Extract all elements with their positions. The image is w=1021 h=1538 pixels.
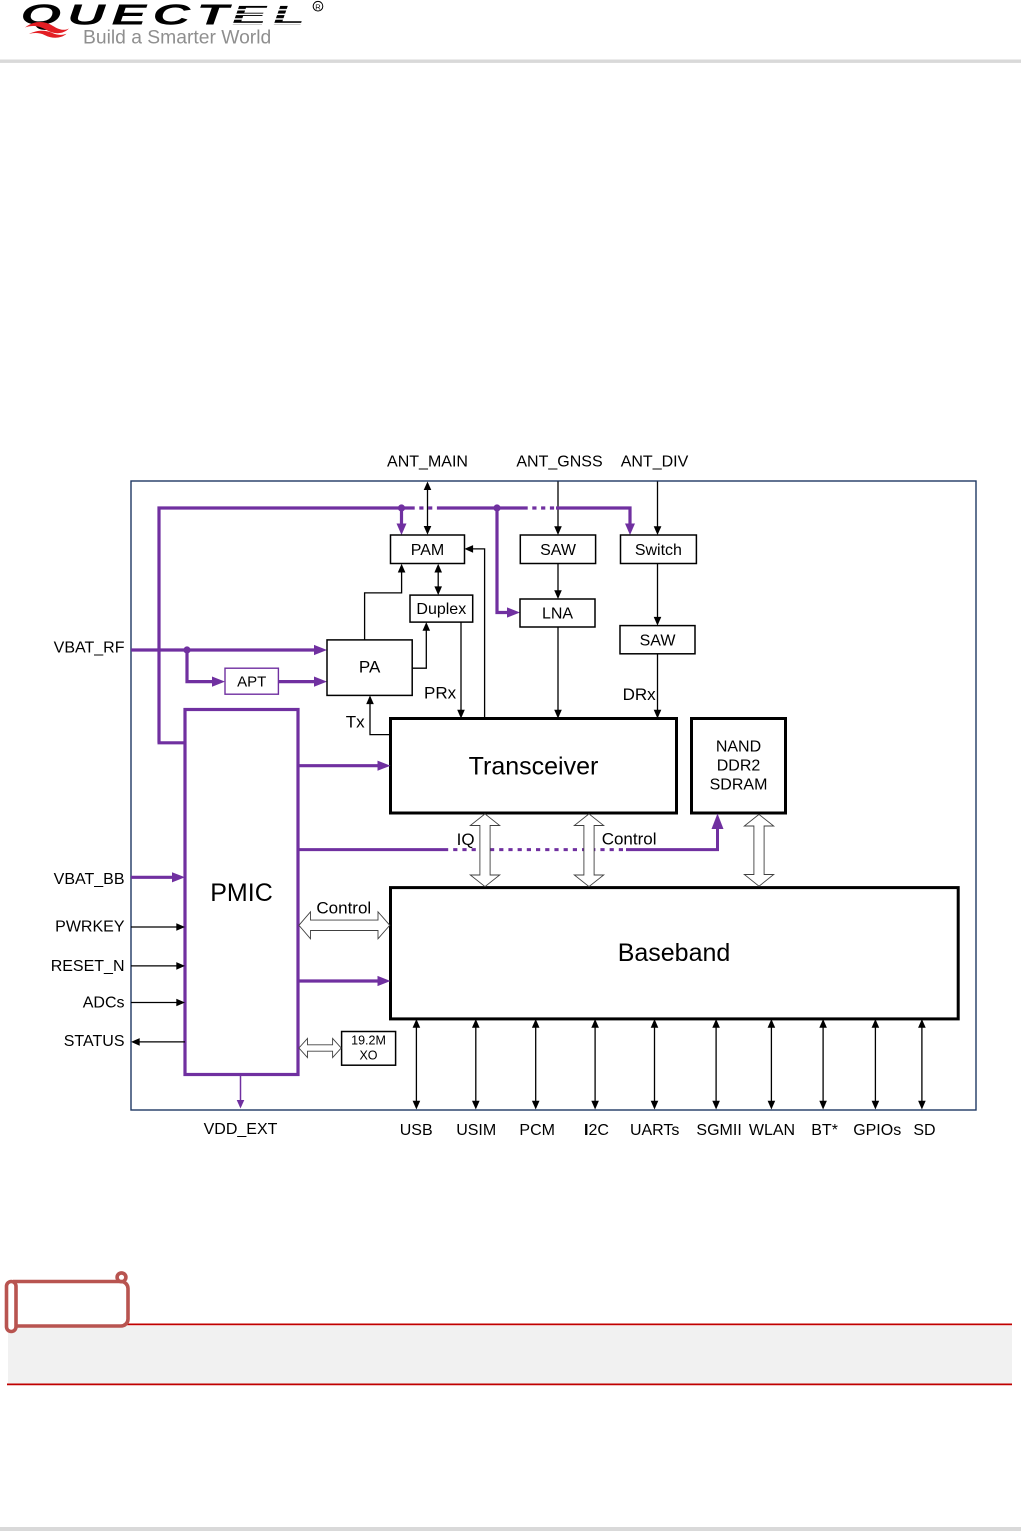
wire APT to PA (279, 680, 319, 683)
wire PAM-Duplex double arrow (437, 567, 439, 592)
wire ANT_MAIN to PAM (double arrow) (424, 482, 432, 535)
wire PA top to PAM bottom (365, 567, 402, 640)
svg-text:PRx: PRx (424, 684, 457, 703)
wire drop to PAM (400, 508, 403, 526)
wire to APT (187, 650, 216, 682)
junction dot at PAM drop (398, 504, 405, 511)
header rule (0, 60, 1021, 63)
wire PWRKEY (131, 926, 178, 928)
wire Duplex to Transceiver (PRx) (460, 622, 462, 715)
diagram outer frame (131, 481, 976, 1110)
svg-text:R: R (315, 2, 321, 11)
wire PMIC to Baseband (purple) (298, 979, 381, 982)
wire ADCs (131, 1002, 178, 1004)
wire STATUS (out) (138, 1041, 185, 1043)
svg-text:SD: SD (913, 1122, 935, 1139)
wire VBAT_BB into PMIC (131, 876, 176, 879)
junction dot at LNA drop (493, 504, 500, 511)
bus arrow Transceiver-Baseband IQ (470, 814, 499, 887)
wire SAW2 to Transceiver (DRx) (657, 654, 659, 715)
svg-text:RESET_N: RESET_N (51, 958, 125, 975)
bus arrow PMIC-Baseband Control (299, 912, 390, 939)
wire Transceiver to PAM (right side) (468, 549, 485, 719)
svg-text:Switch: Switch (635, 542, 682, 559)
component Duplex (410, 595, 473, 622)
svg-text:Build a Smarter World: Build a Smarter World (83, 27, 271, 48)
svg-text:NAND: NAND (716, 739, 761, 756)
svg-text:PMIC: PMIC (210, 879, 273, 907)
wire Transceiver Tx to PA (370, 699, 391, 735)
svg-text:VBAT_BB: VBAT_BB (54, 871, 125, 888)
svg-text:VDD_EXT: VDD_EXT (204, 1121, 278, 1138)
svg-text:ANT_GNSS: ANT_GNSS (516, 454, 602, 471)
svg-text:USIM: USIM (456, 1122, 496, 1139)
wire VBAT_RF into PA (131, 645, 327, 687)
bus arrow NAND-Baseband (744, 814, 773, 886)
svg-text:19.2M: 19.2M (351, 1034, 386, 1048)
svg-text:GPIOs: GPIOs (853, 1122, 901, 1139)
svg-text:Control: Control (602, 829, 657, 848)
wire SAW to LNA (557, 564, 559, 596)
svg-text:I2C: I2C (584, 1122, 609, 1139)
wire VBAT_RF purple trunk (top horizontal, partly dashed) (159, 508, 630, 743)
note band (8, 1326, 1012, 1384)
svg-text:SAW: SAW (640, 632, 677, 649)
svg-text:STATUS: STATUS (64, 1033, 125, 1050)
component PMIC (185, 710, 298, 1075)
svg-text:XO: XO (359, 1049, 377, 1063)
wire PMIC to Transceiver (purple) (298, 764, 381, 767)
note icon (7, 1273, 129, 1332)
component SAW (diversity) (620, 626, 695, 654)
component Baseband (391, 888, 959, 1019)
svg-text:Duplex: Duplex (416, 601, 466, 618)
red swoosh (25, 22, 69, 33)
component SAW (GNSS) (520, 535, 595, 564)
footer rule (0, 1527, 1021, 1531)
wire IQ/Control (PMIC to NAND, partly dashed) (298, 827, 718, 850)
component PAM (391, 535, 465, 564)
wire Switch to SAW2 (657, 564, 659, 623)
arrow into Switch top (625, 524, 635, 536)
wire ANT_GNSS to SAW (554, 482, 562, 536)
registered mark (313, 1, 323, 11)
wire ANT_DIV to Switch (654, 482, 662, 536)
wire trunk into PMIC left (158, 741, 186, 744)
svg-text:SGMII: SGMII (696, 1122, 741, 1139)
svg-text:ANT_MAIN: ANT_MAIN (387, 454, 468, 471)
svg-text:PAM: PAM (411, 542, 444, 559)
svg-text:APT: APT (237, 674, 266, 691)
svg-text:ADCs: ADCs (83, 994, 125, 1011)
svg-text:UARTs: UARTs (630, 1122, 680, 1139)
wire RESET_N (131, 965, 178, 967)
svg-text:PA: PA (359, 658, 381, 677)
svg-text:VBAT_RF: VBAT_RF (54, 640, 125, 657)
svg-text:SDRAM: SDRAM (710, 777, 768, 794)
svg-text:DRx: DRx (623, 685, 657, 704)
component 19.2M XO (342, 1032, 396, 1066)
svg-text:USB: USB (400, 1122, 433, 1139)
svg-text:ANT_DIV: ANT_DIV (621, 454, 689, 471)
svg-text:Tx: Tx (346, 713, 365, 732)
bus arrow Transceiver-Baseband Control (574, 814, 603, 887)
wire PA to Duplex (412, 626, 426, 669)
svg-text:DDR2: DDR2 (717, 758, 761, 775)
svg-text:LNA: LNA (542, 606, 573, 623)
wire drop to LNA (497, 508, 511, 613)
component APT (225, 668, 278, 694)
bottom port double arrows (416, 1023, 922, 1107)
svg-text:Control: Control (316, 899, 371, 918)
bus arrow PMIC-XO (299, 1038, 341, 1057)
svg-text:IQ: IQ (457, 830, 475, 849)
svg-text:Baseband: Baseband (618, 939, 731, 967)
component PA (327, 640, 412, 696)
wire VDD_EXT (PMIC bottom out) (240, 1075, 242, 1104)
component Transceiver (391, 719, 677, 814)
page header: Quectel logo (21, 0, 323, 48)
junction dot VBAT_RF/APT (183, 646, 190, 653)
svg-text:WLAN: WLAN (749, 1122, 795, 1139)
svg-text:BT*: BT* (811, 1122, 838, 1139)
svg-text:EL: EL (232, 0, 311, 30)
wire LNA to Transceiver (557, 627, 559, 715)
component LNA (520, 599, 595, 627)
svg-text:PWRKEY: PWRKEY (55, 918, 125, 935)
svg-text:SAW: SAW (540, 542, 577, 559)
svg-text:PCM: PCM (519, 1122, 555, 1139)
component NAND DDR2 SDRAM (692, 719, 786, 814)
component Switch (621, 535, 697, 564)
svg-text:Transceiver: Transceiver (469, 753, 599, 781)
